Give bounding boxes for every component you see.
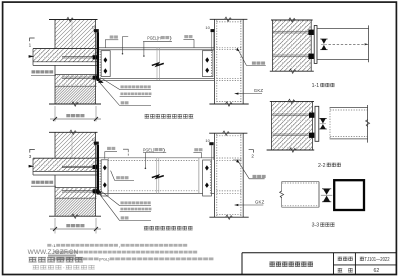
stiffener dotted (bottom) [217, 78, 241, 80]
column GKZ1 top cap [210, 18, 248, 20]
embedded plate 2 (black) [97, 145, 99, 195]
leader to weld note [100, 83, 120, 106]
section mark 1 [30, 38, 35, 41]
svg-text:PGEL(: PGEL( [143, 147, 155, 152]
end plate EP2 right [203, 160, 212, 196]
beam PGL1 top flange [99, 47, 214, 49]
label hanjie 1 right [184, 35, 188, 38]
section 3-3 bolt symbol [323, 189, 330, 195]
weld bracket mark [123, 37, 129, 54]
column inner dotted near caps [217, 21, 241, 23]
caption daiyang 2 [144, 226, 149, 230]
weld dots 2 [99, 161, 101, 193]
svg-text:TJ101—2022: TJ101—2022 [365, 257, 390, 263]
section 3-3 plate plan [282, 182, 319, 208]
anchor bolt A3 [62, 165, 97, 167]
wall W2 top cap line [49, 131, 98, 133]
anchor bolt A2 [62, 76, 97, 78]
wall W1 upper masonry [55, 20, 96, 49]
column inner dotted near caps 2 [217, 135, 241, 137]
section 2-2 box beam [330, 107, 368, 109]
section 1-1 wall bottom cap [270, 70, 314, 72]
anchor bolt A1 [62, 56, 97, 58]
section 3-3 box column [334, 180, 364, 210]
svg-text:·: · [62, 265, 65, 271]
beam PGL1 bottom flange [99, 78, 214, 80]
section mark 2 [249, 150, 254, 153]
wall W1 top cap line [49, 19, 98, 21]
column GKZ2 bottom cap [209, 216, 248, 218]
HS bolt b3 [205, 57, 209, 62]
svg-text:): ) [163, 147, 166, 152]
box beam end lines [107, 158, 109, 194]
label hanjie 2 left [107, 147, 111, 150]
note line hanjie 2b [121, 216, 125, 219]
label yuanjianzhu-quanliang [31, 67, 54, 74]
title text gangjiegou [269, 261, 274, 266]
section 1-1 plate [314, 26, 317, 64]
watermark slogan [33, 265, 39, 269]
HS bolt b8 [205, 183, 209, 188]
weld bracket mark 2 [123, 149, 128, 152]
svg-text:2: 2 [251, 154, 254, 159]
HS bolt b4 [205, 68, 209, 73]
HS bolt b5 [103, 165, 107, 170]
weld fillet 2 [98, 189, 103, 195]
label hanjie 2 right [194, 148, 198, 151]
section 1-1 bolt symbol [321, 39, 326, 44]
label GKZ 2 [235, 204, 264, 206]
notes line 1 [47, 244, 51, 247]
svg-text:10: 10 [205, 138, 210, 143]
svg-text:(PGL): (PGL) [99, 257, 110, 261]
section 2-2 anchor bottom [272, 133, 309, 135]
box beam PGL2 top [99, 157, 214, 159]
end plate EP2 left [101, 160, 108, 196]
embedded plate (black) [97, 32, 99, 81]
wall axis line 2 [71, 134, 73, 158]
weld fillet (black triangle) [98, 77, 103, 83]
svg-text:10: 10 [92, 137, 97, 142]
end plate EP1 left [101, 51, 110, 77]
svg-text:1-1: 1-1 [312, 83, 320, 89]
stiffener dotted bottom 2 [217, 190, 241, 192]
wall W2 bottom cap line [49, 215, 101, 217]
title cell yeci [338, 268, 343, 272]
title block frame [242, 252, 396, 254]
stiffener dotted (top) [217, 47, 241, 49]
leader to bolts note [102, 78, 120, 89]
note line anzhuang 2 [120, 208, 123, 211]
section 2-2 plate [315, 106, 319, 141]
section 1-1 wall [272, 20, 311, 71]
svg-text:2-2: 2-2 [318, 163, 326, 169]
end plate EP1 right [202, 51, 213, 77]
HS bolt b7 [205, 165, 209, 170]
svg-text::1: :1 [52, 244, 56, 248]
wall W2 upper masonry [55, 132, 96, 158]
label hanjie 1 left [110, 35, 114, 38]
slab band B1 (existing floor) [33, 49, 97, 62]
leader arrow into slab [29, 55, 35, 58]
HS bolt b2 [104, 68, 108, 73]
svg-text:GKZ: GKZ [255, 200, 265, 205]
section 2-2 anchor top [272, 113, 309, 115]
watermark subrow [48, 255, 76, 257]
HS bolt b6 [103, 182, 107, 187]
section 1-1 wall top cap [271, 19, 313, 21]
column GKZ1 bottom cap [209, 103, 248, 105]
svg-text:3-3: 3-3 [312, 223, 320, 229]
leader arrow into slab 2 [29, 165, 35, 168]
dimension quanliang-kuandu D1 [54, 106, 56, 122]
leader to bolts note 2 [101, 191, 119, 205]
section 1-1 anchor top [273, 31, 309, 33]
caption daiyang 1 [145, 114, 150, 118]
watermark site name [29, 257, 37, 263]
column GKZ1 flanges [214, 19, 216, 104]
anchor bolt A4 [62, 190, 97, 192]
svg-text:): ) [169, 35, 172, 40]
wall W2 lower masonry [55, 198, 96, 216]
label jiajingban 1 [238, 49, 266, 66]
note line hanjie 1b [121, 101, 125, 104]
svg-text:3: 3 [29, 154, 32, 159]
svg-text:10: 10 [205, 25, 210, 30]
dimension quanliang-kuandu D2 [54, 218, 56, 234]
svg-text:1: 1 [29, 42, 32, 47]
label yuanjianzhu-quanliang 2 [31, 177, 54, 184]
label lianjiejian [116, 176, 120, 179]
svg-text:62: 62 [374, 268, 380, 274]
beam break lines 2 [155, 158, 157, 194]
section 1-1 anchor bottom [273, 54, 309, 56]
wall axis line [71, 21, 73, 48]
leader to weld note 2 [100, 195, 120, 221]
ring beam band B2 [55, 75, 97, 87]
beam break lines [156, 48, 158, 81]
section 1-1 beam outline [317, 28, 369, 30]
section 1-1 dashed centerline [329, 43, 369, 45]
title atlas number [360, 257, 364, 261]
column GKZ2 flanges [214, 133, 216, 217]
label jiajingban 2 [238, 160, 265, 179]
section 2-2 wall [271, 101, 312, 150]
note line danceh 1 [120, 85, 123, 88]
svg-text:PGEL(H: PGEL(H [147, 35, 160, 40]
title cell tujihao [338, 257, 343, 261]
wall W1 lower masonry [55, 86, 96, 104]
stiffener dotted top 2 [217, 157, 241, 159]
section 2-2 bolt symbol [320, 118, 326, 123]
svg-text:GKZ: GKZ [254, 88, 264, 93]
svg-text:10: 10 [92, 25, 97, 30]
svg-text:,: , [118, 244, 120, 248]
section mark 3 [30, 149, 35, 152]
box beam PGL2 bottom [99, 192, 214, 194]
wall W1 bottom cap line [49, 103, 101, 105]
column GKZ2 top cap [209, 132, 247, 134]
section 2-2 wall bottom cap [267, 149, 315, 151]
section 2-2 wall top cap [270, 100, 314, 102]
HS bolt b1 [104, 57, 108, 62]
label GKZ 1 [235, 93, 262, 95]
slab band B1-2 [33, 158, 97, 171]
ring beam band B2-2 [55, 188, 97, 199]
note line anzhuang 1 [120, 92, 123, 95]
weld dots [99, 52, 101, 80]
note line danceh 2 [120, 201, 123, 204]
